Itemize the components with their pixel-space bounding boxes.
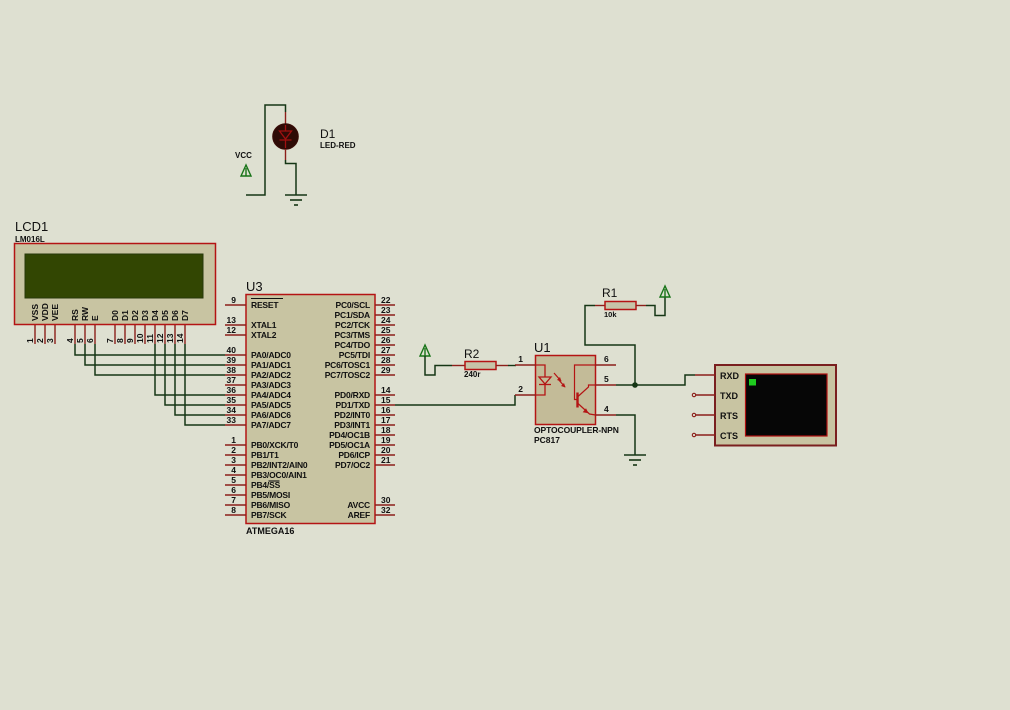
- wire U1 pin4 to ground: [616, 415, 635, 455]
- wire LCD D6 to PA6: [175, 344, 225, 415]
- U1 phototransistor: [575, 365, 596, 415]
- svg-text:11: 11: [145, 334, 155, 343]
- svg-text:R1: R1: [602, 286, 618, 300]
- svg-text:LED-RED: LED-RED: [320, 141, 356, 150]
- svg-text:D5: D5: [160, 310, 170, 321]
- svg-text:PB2/INT2/AIN0: PB2/INT2/AIN0: [251, 460, 308, 470]
- svg-text:AVCC: AVCC: [347, 500, 370, 510]
- svg-text:29: 29: [381, 365, 391, 375]
- svg-text:RESET: RESET: [251, 300, 279, 310]
- U3 pin 29 PC7/TOSC2: [325, 365, 395, 380]
- svg-text:PA7/ADC7: PA7/ADC7: [251, 420, 291, 430]
- U3 pin 13 XTAL1: [225, 315, 277, 330]
- U3 pin 37 PA3/ADC3: [225, 375, 291, 390]
- svg-text:PC2/TCK: PC2/TCK: [335, 320, 371, 330]
- terminal pin CTS: [692, 431, 738, 441]
- svg-text:35: 35: [227, 395, 237, 405]
- svg-text:PC3/TMS: PC3/TMS: [335, 330, 371, 340]
- U3 pin 3 PB2/INT2/AIN0: [225, 455, 308, 470]
- svg-text:37: 37: [227, 375, 237, 385]
- svg-text:14: 14: [175, 333, 185, 343]
- U3 pin 16 PD2/INT0: [334, 405, 395, 420]
- svg-text:VCC: VCC: [235, 151, 252, 160]
- terminal pin RTS: [692, 411, 738, 421]
- svg-text:9: 9: [231, 295, 236, 305]
- svg-text:8: 8: [231, 505, 236, 515]
- U1 light arrows: [554, 373, 566, 388]
- U3 pin 8 PB7/SCK: [225, 505, 288, 520]
- svg-text:PB1/T1: PB1/T1: [251, 450, 279, 460]
- svg-text:PD7/OC2: PD7/OC2: [335, 460, 370, 470]
- svg-text:PD0/RXD: PD0/RXD: [335, 390, 371, 400]
- svg-text:1: 1: [231, 435, 236, 445]
- svg-text:240r: 240r: [464, 370, 480, 379]
- U3 pin 1 PB0/XCK/T0: [225, 435, 299, 450]
- svg-text:PD4/OC1B: PD4/OC1B: [329, 430, 370, 440]
- LCD screen: [25, 254, 203, 298]
- svg-text:PA0/ADC0: PA0/ADC0: [251, 350, 291, 360]
- svg-text:RW: RW: [80, 306, 90, 321]
- U3 pin 4 PB3/OC0/AIN1: [225, 465, 307, 480]
- svg-text:19: 19: [381, 435, 391, 445]
- svg-text:4: 4: [65, 338, 75, 343]
- U3 pin 6 PB5/MOSI: [225, 485, 290, 500]
- svg-text:VEE: VEE: [50, 304, 60, 321]
- power arrow for R1: [660, 286, 670, 297]
- svg-text:D7: D7: [180, 310, 190, 321]
- svg-text:U1: U1: [534, 340, 551, 355]
- svg-text:E: E: [90, 315, 100, 321]
- svg-text:12: 12: [227, 325, 237, 335]
- wire LCD E to PA2: [95, 344, 225, 375]
- svg-text:18: 18: [381, 425, 391, 435]
- power VCC arrow: [241, 165, 251, 176]
- svg-text:34: 34: [227, 405, 237, 415]
- svg-text:PC817: PC817: [534, 435, 560, 445]
- U3 pin 39 PA1/ADC1: [225, 355, 291, 370]
- wire LED cathode to ground: [286, 160, 297, 195]
- wire U3 PD1/TXD to U1 pin2: [395, 395, 515, 405]
- virtual terminal body: [715, 365, 836, 446]
- svg-text:6: 6: [231, 485, 236, 495]
- U3 pin 7 PB6/MISO: [225, 495, 291, 510]
- LCD pin stubs 1-14: [35, 325, 185, 344]
- svg-text:40: 40: [227, 345, 237, 355]
- svg-text:D3: D3: [140, 310, 150, 321]
- U3 pin 24 PC2/TCK: [335, 315, 395, 330]
- U3 pin 26 PC4/TDO: [335, 335, 395, 350]
- svg-text:D1: D1: [320, 127, 336, 141]
- svg-text:32: 32: [381, 505, 391, 515]
- U3 pin 40 PA0/ADC0: [225, 345, 291, 360]
- U3 pin 18 PD4/OC1B: [329, 425, 395, 440]
- U3 pin 12 XTAL2: [225, 325, 277, 340]
- svg-text:LM016L: LM016L: [15, 235, 45, 244]
- svg-text:AREF: AREF: [348, 510, 370, 520]
- U3 pin 2 PB1/T1: [225, 445, 279, 460]
- wire LCD D4 to PA4: [155, 344, 225, 395]
- LCD pin numbers 1-14 (rotated): [25, 333, 185, 343]
- U3 pin 19 PD5/OC1A: [329, 435, 395, 450]
- wire LCD RS to PA0: [75, 344, 225, 355]
- U1 optocoupler body: [536, 356, 596, 425]
- svg-text:PB0/XCK/T0: PB0/XCK/T0: [251, 440, 299, 450]
- svg-text:PA2/ADC2: PA2/ADC2: [251, 370, 291, 380]
- svg-text:5: 5: [231, 475, 236, 485]
- U3 pin 25 PC3/TMS: [335, 325, 395, 340]
- svg-text:PA4/ADC4: PA4/ADC4: [251, 390, 291, 400]
- svg-text:30: 30: [381, 495, 391, 505]
- svg-text:2: 2: [518, 384, 523, 394]
- svg-text:PD2/INT0: PD2/INT0: [334, 410, 370, 420]
- svg-text:13: 13: [165, 333, 175, 343]
- svg-text:RS: RS: [70, 309, 80, 321]
- svg-text:13: 13: [227, 315, 237, 325]
- U3 pin 9 RESET: [225, 295, 283, 310]
- svg-text:RTS: RTS: [720, 411, 738, 421]
- svg-text:PC7/TOSC2: PC7/TOSC2: [325, 370, 371, 380]
- U3 pin 28 PC6/TOSC1: [325, 355, 395, 370]
- svg-text:1: 1: [25, 338, 35, 343]
- U1 pin 5: [596, 374, 617, 385]
- svg-text:U3: U3: [246, 279, 263, 294]
- junction node: [632, 382, 638, 388]
- U3 pin 38 PA2/ADC2: [225, 365, 291, 380]
- U3 pin 33 PA7/ADC7: [225, 415, 291, 430]
- svg-text:PA1/ADC1: PA1/ADC1: [251, 360, 291, 370]
- svg-text:36: 36: [227, 385, 237, 395]
- svg-text:PA5/ADC5: PA5/ADC5: [251, 400, 291, 410]
- svg-text:26: 26: [381, 335, 391, 345]
- wire LCD RW to PA1: [85, 344, 225, 365]
- svg-text:PB5/MOSI: PB5/MOSI: [251, 490, 290, 500]
- wire R1 left to junction: [585, 306, 635, 386]
- svg-text:21: 21: [381, 455, 391, 465]
- svg-text:27: 27: [381, 345, 391, 355]
- U3 pin 21 PD7/OC2: [335, 455, 395, 470]
- U3 pin 27 PC5/TDI: [339, 345, 395, 360]
- svg-text:24: 24: [381, 315, 391, 325]
- svg-text:D1: D1: [120, 310, 130, 321]
- svg-text:33: 33: [227, 415, 237, 425]
- LED D1: [273, 112, 299, 160]
- terminal screen: [746, 374, 828, 436]
- svg-text:TXD: TXD: [720, 391, 739, 401]
- U3 pin 35 PA5/ADC5: [225, 395, 291, 410]
- power arrow for R2: [420, 345, 430, 356]
- svg-text:OPTOCOUPLER-NPN: OPTOCOUPLER-NPN: [534, 425, 619, 435]
- U3 pin 32 AREF: [348, 505, 395, 520]
- resistor R2: [452, 362, 508, 370]
- svg-text:D0: D0: [110, 310, 120, 321]
- U3 pin 22 PC0/SCL: [336, 295, 396, 310]
- U3 pin 17 PD3/INT1: [334, 415, 395, 430]
- LCD pin name labels (rotated): [30, 303, 190, 321]
- svg-text:PB7/SCK: PB7/SCK: [251, 510, 288, 520]
- svg-text:PC6/TOSC1: PC6/TOSC1: [325, 360, 371, 370]
- U3 pin 5 PB4/SS: [225, 475, 281, 490]
- svg-text:8: 8: [115, 338, 125, 343]
- svg-text:2: 2: [35, 338, 45, 343]
- svg-text:5: 5: [75, 338, 85, 343]
- svg-text:PB6/MISO: PB6/MISO: [251, 500, 291, 510]
- svg-text:20: 20: [381, 445, 391, 455]
- svg-text:22: 22: [381, 295, 391, 305]
- svg-text:39: 39: [227, 355, 237, 365]
- svg-text:6: 6: [85, 338, 95, 343]
- svg-text:CTS: CTS: [720, 431, 738, 441]
- svg-text:PD3/INT1: PD3/INT1: [334, 420, 370, 430]
- terminal pin TXD: [692, 391, 738, 401]
- U3 pin 34 PA6/ADC6: [225, 405, 291, 420]
- svg-text:D6: D6: [170, 310, 180, 321]
- svg-text:6: 6: [604, 354, 609, 364]
- svg-text:D4: D4: [150, 310, 160, 321]
- svg-text:5: 5: [604, 374, 609, 384]
- svg-text:17: 17: [381, 415, 391, 425]
- wire power arrow to R2: [425, 356, 452, 375]
- svg-text:PD1/TXD: PD1/TXD: [336, 400, 371, 410]
- svg-text:15: 15: [381, 395, 391, 405]
- terminal pin RXD: [695, 371, 740, 381]
- svg-text:2: 2: [231, 445, 236, 455]
- svg-text:PB3/OC0/AIN1: PB3/OC0/AIN1: [251, 470, 307, 480]
- svg-text:LCD1: LCD1: [15, 219, 48, 234]
- svg-text:4: 4: [604, 404, 609, 414]
- svg-text:16: 16: [381, 405, 391, 415]
- U3 pin 20 PD6/ICP: [338, 445, 395, 460]
- svg-text:VDD: VDD: [40, 303, 50, 321]
- svg-text:PC4/TDO: PC4/TDO: [335, 340, 371, 350]
- wire LCD D7 to PA7: [185, 344, 225, 425]
- U3 pin 30 AVCC: [347, 495, 395, 510]
- wire VCC arrow to LED anode: [246, 105, 286, 195]
- svg-text:VSS: VSS: [30, 304, 40, 321]
- svg-text:XTAL1: XTAL1: [251, 320, 277, 330]
- svg-text:D2: D2: [130, 310, 140, 321]
- svg-text:PA3/ADC3: PA3/ADC3: [251, 380, 291, 390]
- U3 pin 23 PC1/SDA: [335, 305, 395, 320]
- svg-text:10k: 10k: [604, 310, 617, 319]
- svg-text:28: 28: [381, 355, 391, 365]
- svg-text:RXD: RXD: [720, 371, 740, 381]
- U1 pin 6: [596, 354, 617, 365]
- svg-text:3: 3: [231, 455, 236, 465]
- wire R1 right to power arrow: [646, 297, 665, 316]
- svg-text:25: 25: [381, 325, 391, 335]
- svg-text:1: 1: [518, 354, 523, 364]
- svg-text:PD6/ICP: PD6/ICP: [338, 450, 370, 460]
- wire LCD D5 to PA5: [165, 344, 225, 405]
- svg-text:PD5/OC1A: PD5/OC1A: [329, 440, 370, 450]
- LCD LM016L body: [15, 244, 216, 325]
- U1 internal LED symbol: [536, 365, 552, 395]
- ground for LED: [285, 194, 307, 196]
- svg-text:7: 7: [105, 338, 115, 343]
- U1 pin 1: [515, 354, 536, 365]
- wire U1 pin5 to RXD: [616, 375, 695, 385]
- svg-text:9: 9: [125, 338, 135, 343]
- svg-text:12: 12: [155, 333, 165, 343]
- wire R2 to U1 pin1: [508, 365, 516, 367]
- svg-text:4: 4: [231, 465, 236, 475]
- ground for U1 pin4: [624, 454, 646, 456]
- svg-text:PC1/SDA: PC1/SDA: [335, 310, 371, 320]
- svg-text:14: 14: [381, 385, 391, 395]
- svg-text:10: 10: [135, 333, 145, 343]
- svg-text:7: 7: [231, 495, 236, 505]
- U1 pin 2: [515, 384, 536, 395]
- svg-text:23: 23: [381, 305, 391, 315]
- svg-text:PC5/TDI: PC5/TDI: [339, 350, 370, 360]
- U3 pin 36 PA4/ADC4: [225, 385, 291, 400]
- U1 pin 4: [596, 404, 617, 415]
- svg-text:3: 3: [45, 338, 55, 343]
- svg-text:XTAL2: XTAL2: [251, 330, 277, 340]
- svg-text:PC0/SCL: PC0/SCL: [336, 300, 371, 310]
- svg-text:R2: R2: [464, 347, 480, 361]
- U3 pin 15 PD1/TXD: [336, 395, 396, 410]
- terminal cursor: [749, 379, 756, 386]
- svg-text:ATMEGA16: ATMEGA16: [246, 526, 294, 536]
- U3 pin 14 PD0/RXD: [335, 385, 395, 400]
- U3 ATMEGA16 body: [246, 295, 375, 524]
- resistor R1: [595, 302, 646, 310]
- svg-text:38: 38: [227, 365, 237, 375]
- svg-text:PA6/ADC6: PA6/ADC6: [251, 410, 291, 420]
